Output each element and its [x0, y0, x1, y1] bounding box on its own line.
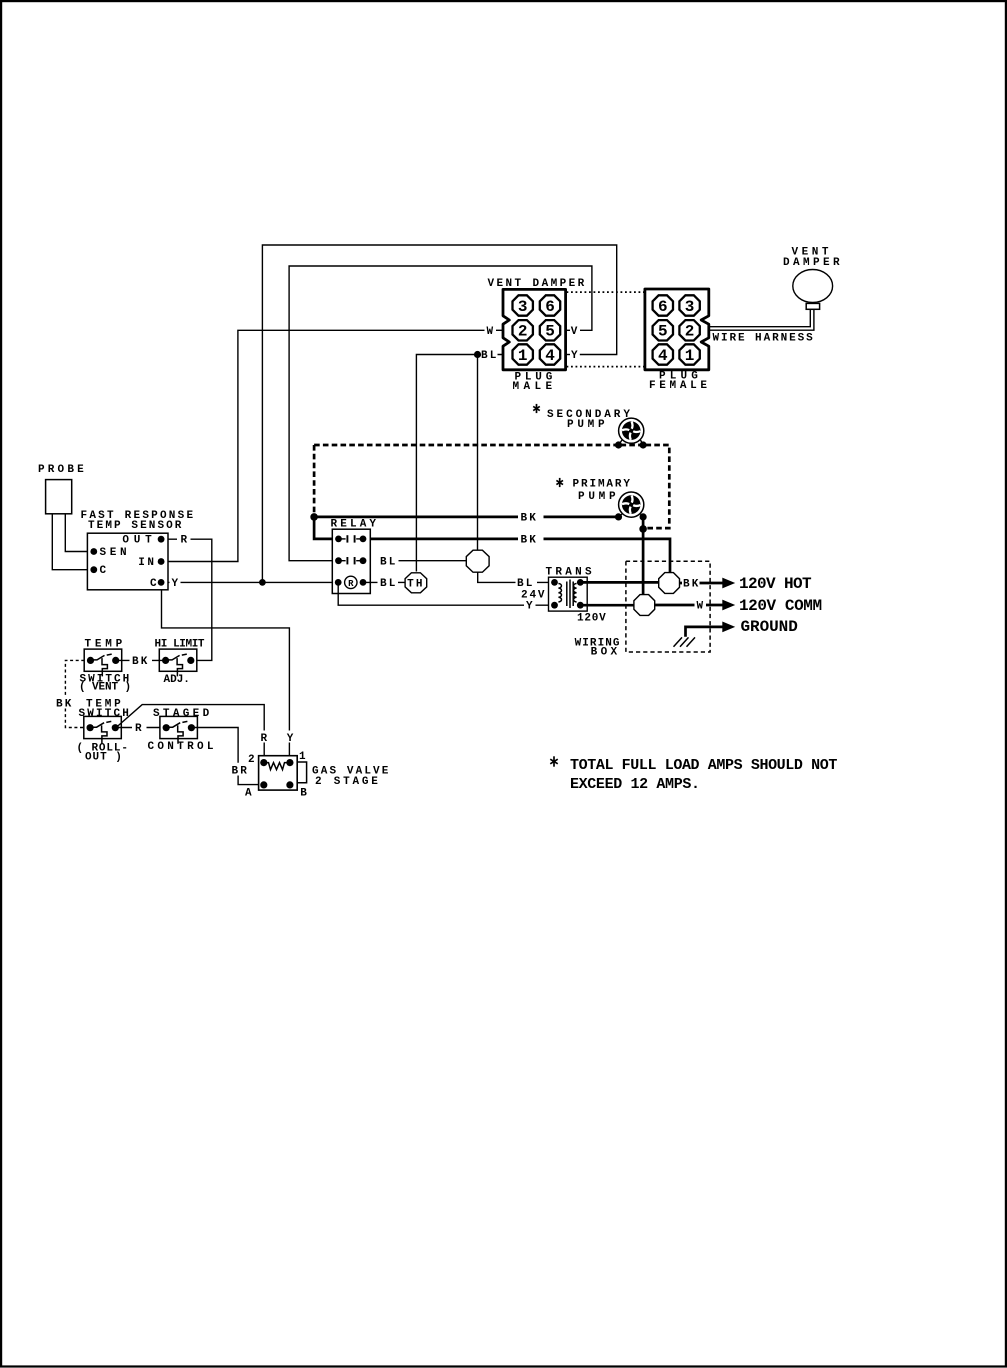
svg-text:120V: 120V — [577, 612, 606, 624]
svg-text:BR: BR — [232, 766, 250, 778]
gas valve resistor — [267, 763, 288, 770]
wire V-pin loop (male plug pin V to relay coil) — [289, 266, 592, 561]
svg-text:BOX: BOX — [591, 647, 621, 659]
svg-text:2: 2 — [248, 754, 255, 766]
sensor terminal IN — [158, 558, 165, 565]
svg-text:OUT: OUT — [122, 535, 156, 547]
wire V stub at plug — [566, 329, 570, 331]
svg-text:4: 4 — [658, 347, 668, 365]
secondary pump terminals — [615, 441, 622, 448]
svg-text:6: 6 — [545, 298, 555, 316]
plug male body — [503, 289, 566, 369]
svg-text:PUMP: PUMP — [578, 491, 619, 503]
svg-text:DAMPER: DAMPER — [783, 257, 843, 269]
secondary pump — [619, 418, 644, 443]
svg-text:V: V — [571, 326, 578, 338]
plug female body — [645, 289, 709, 370]
arrow 120V HOT — [722, 578, 735, 589]
svg-text:Y: Y — [571, 350, 578, 362]
svg-text:( VENT ): ( VENT ) — [79, 681, 131, 693]
dotted link bottom — [567, 366, 645, 368]
male plug pin 3 — [513, 295, 533, 315]
wire BK1 (to primary pump) — [314, 516, 618, 519]
svg-text:1: 1 — [685, 347, 695, 365]
transformer box — [549, 577, 588, 611]
wire relay row3 to TH — [364, 581, 405, 583]
transformer core — [567, 580, 573, 609]
wire R between rollout and staged — [116, 727, 166, 729]
wire BK2 (relay to wiring box) — [363, 539, 670, 574]
wire ground — [686, 627, 723, 637]
node BK junction dot — [310, 513, 318, 521]
svg-text:GROUND: GROUND — [741, 618, 798, 636]
arrow 120V COMM — [722, 600, 735, 611]
svg-text:3: 3 — [518, 298, 528, 316]
primary pump — [619, 492, 644, 517]
wire relay feed — [314, 517, 337, 539]
svg-text:120V COMM: 120V COMM — [739, 597, 822, 615]
male plug pin 1 — [513, 344, 533, 364]
svg-text:BK: BK — [521, 534, 539, 546]
dashed pump loop — [314, 445, 669, 528]
vent damper neck — [806, 303, 819, 309]
female plug pin 5 — [653, 320, 673, 340]
label * primary — [556, 478, 563, 487]
svg-text:A: A — [245, 787, 252, 799]
temp sensor box — [87, 533, 168, 590]
sensor terminal C (left) — [90, 566, 97, 573]
wire trans to hot nut — [580, 581, 659, 584]
rollout switch — [84, 716, 122, 743]
svg-text:ADJ.: ADJ. — [164, 674, 190, 686]
ground symbol — [674, 637, 696, 646]
wire relay row2 to wire nut — [399, 560, 468, 562]
male plug pin 2 — [513, 320, 533, 340]
female plug pin 2 — [679, 320, 699, 340]
female plug pin 4 — [653, 344, 673, 364]
svg-text:OUT ): OUT ) — [85, 752, 123, 764]
svg-text:BL: BL — [380, 578, 398, 590]
svg-text:R: R — [261, 733, 268, 745]
svg-text:SEN: SEN — [100, 547, 131, 559]
vent damper ball — [793, 270, 833, 303]
relay coil row — [335, 579, 342, 586]
wire W-pin to sensor IN — [163, 330, 485, 561]
svg-text:Y: Y — [526, 601, 533, 613]
dashed loop left leg — [313, 445, 316, 514]
svg-text:PRIMARY: PRIMARY — [573, 479, 632, 491]
node dashed-loop end dot — [639, 525, 647, 533]
probe body — [46, 480, 72, 514]
svg-text:BK: BK — [132, 656, 150, 668]
wiring box dashed outline — [626, 561, 710, 652]
sensor terminal SEN — [90, 548, 97, 555]
dotted link top — [567, 291, 645, 293]
svg-text:TOTAL FULL LOAD AMPS SHOULD NO: TOTAL FULL LOAD AMPS SHOULD NOT — [570, 757, 837, 774]
male plug pin 6 — [540, 295, 560, 315]
wire W stub at plug — [496, 329, 504, 331]
svg-text:2 STAGE: 2 STAGE — [315, 776, 381, 788]
wire Y stub at plug — [566, 354, 570, 356]
wire probe to sensor C — [52, 514, 94, 570]
svg-text:FEMALE: FEMALE — [649, 380, 711, 392]
female plug pin 1 — [679, 344, 699, 364]
sensor terminal OUT — [158, 536, 165, 543]
relay contact row 2 — [335, 557, 342, 564]
svg-text:Y: Y — [287, 733, 294, 745]
svg-text:1: 1 — [299, 751, 306, 763]
wire BK out — [680, 582, 723, 585]
primary pump terminals — [615, 513, 622, 520]
svg-text:C: C — [150, 578, 157, 590]
svg-text:MALE: MALE — [513, 381, 557, 393]
sensor terminal C (right) — [158, 579, 165, 586]
wire nut hot — [659, 573, 680, 594]
staged control switch — [160, 716, 198, 743]
temp switch vent — [84, 649, 122, 676]
svg-text:CONTROL: CONTROL — [148, 741, 217, 753]
svg-text:BL: BL — [380, 556, 398, 568]
svg-text:C: C — [100, 565, 107, 577]
wire BK between switches — [116, 659, 166, 661]
wire sensor C down to gas valve Y — [162, 582, 290, 762]
svg-text:B: B — [300, 787, 307, 799]
svg-text:4: 4 — [545, 347, 555, 365]
svg-text:R: R — [135, 723, 142, 735]
wire primary pump to comm nut — [642, 517, 645, 596]
svg-text:BK: BK — [683, 579, 701, 591]
svg-text:TH: TH — [407, 578, 425, 590]
svg-text:2: 2 — [518, 323, 528, 341]
wire nut BL — [466, 550, 489, 572]
wire nut BL to trans — [478, 572, 555, 582]
wire trans to comm nut — [580, 604, 635, 607]
svg-text:5: 5 — [658, 323, 668, 341]
svg-text:W: W — [487, 326, 494, 338]
svg-text:Y: Y — [172, 578, 179, 590]
svg-text:EXCEED 12 AMPS.: EXCEED 12 AMPS. — [570, 776, 700, 793]
svg-text:TEMP SENSOR: TEMP SENSOR — [88, 520, 184, 532]
svg-text:5: 5 — [545, 323, 555, 341]
svg-text:2: 2 — [685, 323, 695, 341]
label * secondary — [533, 404, 540, 413]
svg-text:BL: BL — [481, 350, 499, 362]
svg-text:W: W — [697, 601, 704, 613]
dashed wire vent to rollout — [65, 660, 84, 727]
gas valve bracket — [297, 762, 306, 783]
gas valve box — [259, 756, 298, 790]
svg-text:3: 3 — [685, 298, 695, 316]
wire W out — [655, 604, 723, 607]
svg-text:24V: 24V — [521, 590, 546, 602]
wire Y-pin loop (sensor C/Y junction to male plug pin Y) — [262, 245, 616, 582]
relay contact row 1 — [335, 536, 342, 543]
female plug pin 6 — [653, 295, 673, 315]
svg-text:R: R — [181, 535, 188, 547]
transformer coils — [558, 584, 561, 602]
svg-text:120V HOT: 120V HOT — [739, 575, 812, 593]
arrow GROUND — [722, 622, 735, 633]
wire nut comm — [634, 595, 655, 616]
svg-text:PROBE: PROBE — [38, 464, 87, 476]
node BL junction dot — [474, 351, 481, 358]
wire rollout diagonal to gas valve R — [116, 705, 264, 763]
svg-text:6: 6 — [658, 298, 668, 316]
node Y junction dot — [259, 579, 266, 586]
male plug pin 5 — [540, 320, 560, 340]
wire probe to sensor SEN — [65, 514, 94, 552]
gas valve terminals — [260, 759, 267, 766]
female plug pin 3 — [679, 295, 699, 315]
wire relay to trans Y — [338, 582, 554, 605]
wire BL down to wire nut — [477, 355, 479, 550]
svg-text:WIRE HARNESS: WIRE HARNESS — [713, 333, 815, 345]
svg-text:PUMP: PUMP — [567, 419, 608, 431]
svg-text:1: 1 — [518, 347, 528, 365]
svg-text:BL: BL — [517, 578, 535, 590]
svg-text:BK: BK — [521, 512, 539, 524]
wire harness double line — [709, 309, 814, 330]
svg-text:BK: BK — [56, 699, 74, 711]
svg-text:R: R — [348, 579, 354, 589]
wire BL from male plug pin 1 — [416, 355, 503, 572]
male plug pin 4 — [540, 344, 560, 364]
wire sensor OUT R to hi-limit — [161, 539, 212, 660]
wire sensor C to Y junction to relay — [161, 581, 340, 583]
wire staged to gas valve A — [191, 728, 264, 785]
thermostat TH — [405, 573, 427, 593]
relay box — [332, 529, 370, 593]
transformer terminals — [551, 579, 558, 586]
footnote asterisk — [550, 756, 557, 766]
svg-text:IN: IN — [138, 557, 156, 569]
hi limit switch — [159, 649, 197, 676]
